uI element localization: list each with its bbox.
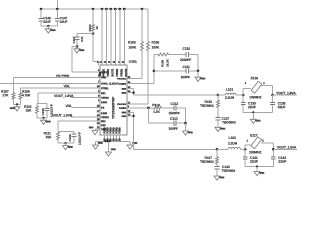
svg-text:VSNS1: VSNS1 (101, 97, 109, 100)
junction on rail at C148 (40, 8, 43, 11)
wire FB1 network top rail (37, 103, 47, 105)
svg-text:4.75K: 4.75K (22, 93, 31, 97)
svg-text:TBD0603: TBD0603 (222, 121, 236, 125)
svg-text:PS: PS (101, 107, 105, 110)
wire VOUT2 cap ground rail (245, 166, 273, 168)
resistor R117 TBD0603 (200, 149, 219, 166)
junction COMP2 network right (184, 122, 187, 125)
svg-text:SYNC_CLKOUT: SYNC_CLKOUT (101, 83, 119, 86)
svg-text:GND: GND (79, 49, 84, 52)
svg-text:100PF: 100PF (180, 75, 190, 79)
ground IC bottom right (127, 142, 138, 150)
svg-text:27K: 27K (2, 93, 9, 97)
ground for VOUT1 caps (250, 112, 261, 123)
capacitor C110 2200PF (169, 47, 199, 62)
junction COMP1 network left (153, 70, 156, 73)
wire COMP1 pin to network (127, 54, 154, 83)
junction snubber2 (216, 148, 219, 151)
svg-text:1UF: 1UF (80, 36, 84, 42)
svg-text:GND: GND (188, 131, 193, 134)
resistor R104 10 (88, 8, 99, 34)
svg-text:15K: 15K (25, 109, 32, 113)
ground for R107/R109 (10, 104, 20, 111)
pin names/numbers right side of U101 (117, 77, 131, 118)
svg-text:GND: GND (132, 142, 137, 145)
capacitor C111 100PF (154, 65, 198, 79)
svg-text:VDL: VDL (65, 104, 72, 108)
svg-text:PGND: PGND (108, 127, 110, 134)
svg-text:1.3K: 1.3K (153, 110, 160, 114)
ground for VOUT2 caps (254, 167, 265, 176)
svg-text:100MHZ: 100MHZ (249, 150, 261, 154)
svg-text:PVDD1: PVDD1 (107, 68, 110, 76)
node VOUT_1.8VA to VSNS1 pin (54, 94, 100, 98)
svg-text:C111: C111 (182, 65, 190, 69)
ground IC bottom center (106, 142, 117, 157)
junction C107 bottom (76, 45, 79, 48)
svg-text:C109: C109 (68, 134, 72, 141)
svg-text:VOUT_1.5VB: VOUT_1.5VB (52, 114, 72, 118)
svg-text:U101: U101 (129, 60, 137, 64)
svg-text:C113: C113 (170, 117, 178, 121)
svg-text:100K: 100K (151, 46, 159, 50)
wire VDD top rail (41, 8, 148, 10)
svg-text:SSZ: SSZ (101, 124, 106, 127)
wire SYNC_CLKOUT from left edge (0, 82, 100, 84)
svg-text:GND: GND (46, 120, 51, 123)
wire FB2 network top rail (58, 130, 74, 132)
svg-text:PGOOD2: PGOOD2 (117, 104, 127, 106)
pin numbers top of U101 (97, 61, 125, 64)
capacitor C113 100PF (168, 117, 185, 131)
wire COMP1 network right rail (197, 54, 199, 71)
junction snubber1 (217, 94, 220, 97)
capacitor C108 1000PF (41, 104, 54, 118)
svg-text:PGND: PGND (114, 127, 116, 134)
svg-text:SW_PWM2: SW_PWM2 (56, 74, 70, 78)
junction FB2 gnd (64, 142, 66, 144)
svg-text:PGND: PGND (111, 127, 113, 134)
svg-text:R118: R118 (152, 103, 160, 107)
svg-text:2200PF: 2200PF (180, 58, 191, 62)
wire VDD rail to IC top pin 6 (119, 8, 122, 65)
svg-text:TPS54386PWP: TPS54386PWP (112, 96, 116, 119)
wire FB2 riser to pin (58, 121, 100, 131)
wire to C107 (77, 33, 93, 35)
svg-text:GND: GND (200, 77, 205, 80)
resistor R111 15K (44, 131, 60, 143)
resistor R105 100K (128, 9, 144, 79)
node VOUT_1.5VB to VSNS2 pin (52, 114, 100, 118)
junction at gnd stem (47, 25, 49, 27)
svg-text:PGND: PGND (120, 127, 122, 134)
wire R105 to PGOOD1 pin (127, 78, 142, 80)
wire R107/R109 ground rail (14, 103, 21, 105)
capacitor C147 22UF (55, 9, 68, 26)
ground for C107 (74, 47, 85, 53)
svg-text:SOFS: SOFS (101, 71, 108, 74)
capacitor C142 22UF (271, 149, 286, 166)
ground for R110/C108 (41, 118, 52, 125)
svg-text:22UF: 22UF (43, 20, 51, 24)
svg-text:R104: R104 (88, 24, 92, 31)
inductor L102 2.2UH (217, 136, 245, 149)
svg-text:18.2K: 18.2K (165, 58, 169, 67)
wire VOUT1 cap ground rail (243, 111, 272, 113)
resistor R109 4.75K (19, 88, 31, 104)
wire SW1 pins join (127, 89, 135, 95)
svg-text:BOOT1: BOOT1 (112, 68, 115, 77)
node VOUT_1.5VA output (273, 146, 297, 150)
wire SW2 pins join (127, 112, 135, 149)
svg-text:GND: GND (255, 120, 260, 123)
svg-text:R106: R106 (151, 41, 159, 45)
svg-text:COMP2: COMP2 (119, 108, 127, 110)
svg-text:1500PF: 1500PF (168, 111, 179, 115)
op-amp U101 TPS54386 box (100, 60, 137, 135)
svg-text:22UF: 22UF (248, 105, 256, 109)
wire SW1 node run (134, 94, 218, 96)
svg-text:COMP1: COMP1 (119, 84, 127, 86)
svg-text:10: 10 (95, 26, 99, 30)
wire COMP2 lower branch (148, 108, 173, 123)
wire GND pin stub (89, 127, 100, 129)
pin names/numbers left side of U101 (97, 69, 120, 131)
svg-text:E117: E117 (250, 134, 258, 138)
svg-text:PGOOD1: PGOOD1 (117, 78, 127, 80)
wire R106 to PGOOD2 pin (127, 103, 148, 105)
wire VDD rail to IC top pin 3 (105, 8, 108, 65)
svg-text:GND: GND (220, 128, 225, 131)
svg-text:VOUT_1.8VA: VOUT_1.8VA (276, 91, 296, 95)
svg-text:L102: L102 (228, 136, 236, 140)
svg-text:FB2: FB2 (101, 120, 106, 123)
capacitor C139 22UF (270, 95, 285, 112)
ground for C148/C147 (45, 26, 56, 33)
svg-text:VOUT_1.8VA: VOUT_1.8VA (54, 94, 74, 98)
junction VOUT2 filter left (244, 148, 247, 151)
svg-text:TBD0603: TBD0603 (200, 160, 214, 164)
svg-text:1000PF: 1000PF (78, 132, 82, 145)
junction R107/R109 gnd (16, 103, 18, 105)
svg-text:TBD0603: TBD0603 (221, 169, 235, 173)
junction blob bottom pins (105, 140, 111, 142)
wire VDD rail to IC top pin 4 (110, 8, 113, 65)
svg-text:22UF: 22UF (60, 20, 68, 24)
wire SW2 node run (134, 148, 217, 150)
svg-text:VOUT_1.5VA: VOUT_1.5VA (277, 146, 297, 150)
resistor R106 100K (147, 41, 160, 104)
svg-text:ILIM2: ILIM2 (101, 112, 108, 115)
junction COMP2 network left (147, 107, 150, 110)
svg-text:C107: C107 (72, 36, 76, 43)
node VDL wire to STSEL pin (21, 84, 101, 88)
bottom pins of U101 with numbers (105, 127, 122, 142)
wire COMP2 pin to network (127, 107, 154, 109)
svg-text:100MHZ: 100MHZ (249, 95, 261, 99)
junction VOUT1 filter right (271, 94, 274, 97)
ground IC bottom left (93, 142, 104, 150)
svg-text:100PF: 100PF (168, 127, 178, 131)
svg-text:C108: C108 (41, 108, 45, 115)
svg-text:VDL: VDL (63, 84, 70, 88)
junction VOUT2 filter right (272, 148, 275, 151)
wire C148/C147 ground rail (41, 25, 57, 27)
capacitor C140 TBD0603 (215, 165, 236, 176)
capacitor C109 1000PF (68, 131, 82, 145)
junction VOUT2 gnd (256, 165, 258, 167)
svg-text:TBD0603: TBD0603 (200, 104, 214, 108)
ground for GND pin (92, 129, 98, 135)
svg-text:L101: L101 (226, 88, 234, 92)
node VDL to PS pin (65, 104, 100, 108)
svg-text:PVDD2: PVDD2 (121, 68, 124, 76)
svg-text:VSNS2: VSNS2 (101, 116, 109, 119)
junction on rail at C147/input (56, 8, 59, 11)
ground for COMP2 network (183, 123, 194, 135)
resistor R110 15K (24, 104, 39, 118)
svg-text:C110: C110 (182, 47, 190, 51)
wire C107 node to SS pin (72, 47, 100, 72)
svg-text:GND: GND (89, 127, 94, 129)
capacitor C141 22UF (243, 149, 258, 166)
junction COMP1 network right (197, 70, 200, 73)
capacitor C148 22UF (39, 9, 51, 26)
svg-text:100K: 100K (128, 46, 136, 50)
svg-text:R105: R105 (128, 41, 136, 45)
wire rail corner to R106 (147, 9, 149, 42)
wire FB1 riser to pin (38, 93, 100, 104)
wire R104 to IC pin VDD (93, 34, 99, 65)
capacitor C137 TBD0603 (216, 117, 236, 127)
wire bottom ground rail (96, 141, 131, 143)
junction R104 bottom / C107 tap (92, 32, 95, 35)
wire VDD rail to IC top pin 2 (101, 8, 104, 65)
svg-text:ILIM1: ILIM1 (101, 101, 108, 104)
inductor L101 2.2UH (218, 88, 243, 100)
svg-text:22UF: 22UF (278, 105, 286, 109)
junction FB1 gnd (42, 117, 44, 119)
svg-text:22UF: 22UF (278, 160, 286, 164)
svg-text:FWD: FWD (101, 76, 107, 79)
svg-text:BOOT2: BOOT2 (125, 68, 128, 77)
svg-text:GND: GND (259, 172, 264, 175)
ferrite bead E117 100MHZ (245, 134, 273, 155)
svg-text:GND: GND (219, 176, 224, 179)
svg-text:E116: E116 (251, 76, 259, 80)
wire VDD rail to IC top pin 7 (123, 8, 126, 65)
ground for R111/C109 (63, 143, 74, 150)
svg-text:GND: GND (111, 148, 116, 151)
capacitor C107 1UF (72, 34, 84, 47)
ground for snubber2 (214, 176, 225, 181)
junction VOUT1 gnd (252, 111, 254, 113)
wire COMP2 network right rail (185, 108, 187, 123)
svg-text:PVDD2: PVDD2 (116, 68, 119, 76)
capacitor C112 1500PF (162, 102, 186, 115)
resistor R118 1.3K (152, 103, 161, 114)
wire VIN input from top edge (56, 0, 58, 9)
node SW_PWM2 wire to FWD pin (14, 74, 101, 78)
pin names top of U101 (99, 68, 128, 77)
svg-text:22UF: 22UF (250, 160, 258, 164)
capacitor C130 22UF (241, 95, 256, 112)
resistor R107 27K (1, 77, 15, 104)
svg-text:STSEL: STSEL (101, 87, 109, 90)
wire FB2 network bottom rail (58, 142, 74, 144)
wire FB1 network bottom rail (37, 117, 47, 119)
svg-text:C112: C112 (170, 102, 178, 106)
ground for snubber1 (215, 127, 226, 132)
svg-text:GND: GND (50, 29, 55, 32)
svg-text:GND: GND (10, 107, 15, 110)
ferrite bead E116 100MHZ (243, 76, 272, 99)
ground for COMP1 network (195, 71, 206, 82)
svg-text:GND: GND (98, 142, 103, 145)
resistor R115 TBD0603 (200, 95, 220, 117)
resistor R108 18.2K (154, 53, 169, 67)
svg-text:GND: GND (68, 146, 73, 149)
svg-text:2.2UH: 2.2UH (225, 96, 235, 100)
svg-text:R108: R108 (161, 60, 165, 67)
junction VOUT1 filter left (242, 94, 245, 97)
svg-text:PGND: PGND (105, 127, 107, 134)
node VOUT_1.8VA output (273, 91, 297, 95)
svg-text:15K: 15K (45, 135, 52, 139)
svg-text:PGND: PGND (117, 127, 119, 134)
junction rail at R105 (141, 8, 144, 11)
svg-text:2.2UH: 2.2UH (228, 142, 238, 146)
svg-text:FB1: FB1 (101, 92, 106, 95)
wire VDD rail to IC top pin 5 (114, 8, 117, 65)
